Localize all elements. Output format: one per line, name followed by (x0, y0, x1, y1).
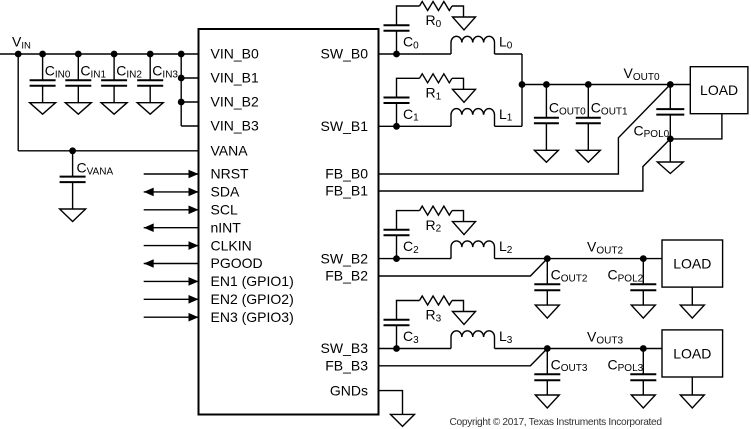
wire L2 to load rail (495, 258, 663, 260)
label CIN2 (116, 63, 142, 81)
svg-text:C1: C1 (403, 106, 419, 124)
svg-text:VIN: VIN (12, 34, 31, 52)
node CVANA tap (69, 147, 76, 154)
wire CIN0 lower stem (42, 86, 44, 103)
svg-text:VIN_B3: VIN_B3 (211, 118, 259, 134)
ground CVANA (60, 209, 86, 222)
capacitor CIN2 (101, 80, 127, 86)
svg-text:Copyright © 2017, Texas Instru: Copyright © 2017, Texas Instruments Inco… (450, 417, 663, 428)
wire EN3 (GPIO3) signal line (144, 316, 199, 318)
pin label SW_B0 (321, 46, 369, 62)
node CIN3 tap (147, 51, 154, 58)
node C1 junction (393, 123, 400, 130)
pin label VIN_B2 (211, 94, 259, 110)
label C2 (403, 238, 419, 256)
svg-text:FB_B3: FB_B3 (325, 358, 368, 374)
arrowhead SDA into IC (189, 188, 199, 197)
capacitor C2 (384, 230, 410, 236)
ground CIN0 (30, 103, 56, 115)
ground R1 (453, 89, 476, 102)
wire output bus B0/B1 (521, 54, 523, 126)
wire C1 to R1 (397, 78, 420, 97)
label L2 (499, 238, 513, 256)
ground CIN3 (137, 103, 163, 115)
node VIN bus tap (178, 51, 185, 58)
node VIN_B1 tap (178, 75, 185, 82)
svg-text:SW_B2: SW_B2 (321, 250, 369, 266)
wire C2 to R2 (397, 211, 420, 230)
svg-text:C2: C2 (403, 238, 419, 256)
label C3 (403, 328, 419, 346)
label C1 (403, 106, 419, 124)
label VIN (12, 34, 31, 52)
node CPOL3 tap (640, 345, 647, 352)
svg-text:NRST: NRST (211, 166, 250, 182)
wire SDA signal line (144, 191, 199, 193)
ground COUT1 (576, 150, 600, 162)
svg-text:R0: R0 (426, 12, 442, 30)
wire L1 to bus (495, 125, 523, 127)
label L1 (499, 106, 513, 124)
capacitor C1 (384, 98, 410, 104)
svg-text:FB_B1: FB_B1 (325, 183, 368, 199)
svg-text:SW_B0: SW_B0 (321, 46, 369, 62)
label CIN3 (152, 63, 178, 81)
wire LOAD0 return (670, 114, 722, 139)
arrowhead EN1 (GPIO1) into IC (189, 277, 199, 286)
label L3 (499, 328, 513, 346)
capacitor COUT0 (534, 118, 559, 124)
wire CIN2 lower stem (113, 86, 115, 103)
ground load return (657, 162, 683, 174)
wire COUT0 upper stem (545, 85, 547, 118)
label CVANA (77, 160, 114, 178)
label R0 (426, 12, 442, 30)
svg-text:CPOL0: CPOL0 (634, 122, 670, 140)
label CIN0 (45, 63, 71, 81)
label R1 (426, 85, 442, 103)
capacitor CIN0 (30, 80, 56, 86)
node VIN (15, 51, 22, 58)
wire C3 to R3 (397, 301, 420, 320)
svg-text:R3: R3 (426, 307, 442, 325)
inductor L0 (451, 36, 495, 54)
ground CPOL3 (631, 395, 655, 408)
pin label SCL (211, 202, 238, 218)
label VOUT2 (587, 239, 623, 257)
label VOUT0 (624, 65, 660, 83)
pin label NRST (211, 166, 250, 182)
wire CPOL3 lower stem (642, 380, 644, 395)
svg-text:L1: L1 (499, 106, 513, 124)
arrowhead EN3 (GPIO3) into IC (189, 313, 199, 322)
wire VANA feed vertical (17, 54, 19, 151)
capacitor C0 (384, 25, 410, 31)
svg-text:L3: L3 (499, 328, 513, 346)
wire FB_B2 net (379, 259, 548, 276)
wire R0 to ground (452, 6, 464, 17)
capacitor CVANA (60, 177, 86, 183)
op LOAD block VOUT3 (662, 330, 723, 377)
wire VIN vertical bus (180, 54, 182, 126)
label CPOL3 (608, 356, 644, 374)
node COUT3 tap (544, 345, 551, 352)
svg-text:CLKIN: CLKIN (211, 237, 252, 253)
op LOAD block VOUT0 (690, 67, 748, 114)
wire L3 to load rail (495, 348, 663, 350)
ground R3 (453, 312, 476, 325)
ground COUT0 (534, 150, 558, 162)
arrowhead nINT out of IC (144, 223, 154, 232)
node COUT0 tap (543, 81, 550, 88)
svg-text:CPOL3: CPOL3 (608, 356, 644, 374)
op LOAD block VOUT2 (662, 240, 723, 287)
label COUT3 (551, 356, 588, 374)
label copyright (450, 417, 663, 428)
wire LOAD3 ground stem (691, 377, 693, 395)
wire SW_B3 output (379, 348, 452, 350)
pin label EN2 (GPIO2) (211, 291, 294, 307)
wire C0 lower stem (396, 31, 398, 54)
ground CIN2 (101, 103, 127, 115)
inductor L2 (451, 241, 495, 259)
wire COUT0 lower stem (545, 123, 547, 150)
svg-text:CVANA: CVANA (77, 160, 114, 178)
pin label SW_B1 (321, 118, 369, 134)
pin label VIN_B3 (211, 118, 259, 134)
wire C0 to R0 (397, 6, 420, 25)
pin label SW_B2 (321, 250, 369, 266)
op IC U1 quad-buck PMIC body (199, 29, 379, 415)
wire COUT2 lower stem (546, 290, 548, 305)
arrowhead SCL into IC (189, 206, 199, 215)
ground GNDs (391, 414, 415, 426)
svg-text:PGOOD: PGOOD (211, 255, 263, 271)
svg-text:CIN0: CIN0 (45, 63, 71, 81)
svg-text:VOUT3: VOUT3 (587, 329, 623, 347)
pin label PGOOD (211, 255, 263, 271)
node load return (667, 136, 674, 143)
wire CIN3 upper stem (149, 54, 151, 80)
svg-text:SW_B1: SW_B1 (321, 118, 369, 134)
ground COUT3 (535, 395, 559, 408)
ground LOAD3 (680, 395, 704, 408)
svg-text:VIN_B2: VIN_B2 (211, 94, 259, 110)
wire FB_B3 net (379, 349, 548, 366)
inductor L3 (451, 331, 495, 349)
pin label nINT (211, 219, 242, 235)
capacitor CIN3 (137, 80, 163, 86)
node CPOL2 tap (640, 255, 647, 262)
arrowhead CLKIN into IC (189, 241, 199, 250)
label COUT0 (549, 100, 586, 118)
label L0 (499, 34, 513, 52)
svg-text:VOUT0: VOUT0 (624, 65, 660, 83)
wire CVANA lower stem (72, 182, 74, 209)
wire R1 to ground (452, 78, 464, 89)
node C3 junction (393, 345, 400, 352)
wire EN1 (GPIO1) signal line (144, 280, 199, 282)
svg-text:CIN1: CIN1 (80, 63, 106, 81)
resistor R1 (420, 74, 453, 83)
svg-text:L2: L2 (499, 238, 513, 256)
wire VIN_B2 stub (181, 101, 198, 103)
wire NRST signal line (144, 173, 199, 175)
svg-text:LOAD: LOAD (700, 82, 738, 98)
wire CPOL3 upper stem (642, 349, 644, 375)
node C0 junction (393, 51, 400, 58)
arrowhead EN2 (GPIO2) into IC (189, 295, 199, 304)
svg-text:COUT3: COUT3 (551, 356, 588, 374)
wire C3 lower stem (396, 325, 398, 348)
svg-text:CIN3: CIN3 (152, 63, 178, 81)
resistor R3 (420, 296, 453, 305)
svg-text:SDA: SDA (211, 184, 240, 200)
node CIN2 tap (111, 51, 118, 58)
arrowhead SDA out of IC (144, 188, 154, 197)
wire VIN input rail (0, 53, 199, 55)
node CIN0 tap (39, 51, 46, 58)
arrowhead NRST into IC (189, 170, 199, 179)
svg-text:FB_B0: FB_B0 (325, 166, 368, 182)
svg-text:EN2 (GPIO2): EN2 (GPIO2) (211, 291, 294, 307)
wire CPOL0 upper stem (669, 85, 671, 110)
pin label VIN_B1 (211, 70, 259, 86)
pin label VANA (211, 143, 249, 159)
pin label FB_B2 (325, 268, 368, 284)
wire PGOOD signal line (144, 263, 199, 265)
pin label FB_B3 (325, 358, 368, 374)
wire CIN3 lower stem (149, 86, 151, 103)
svg-text:EN3 (GPIO3): EN3 (GPIO3) (211, 309, 294, 325)
svg-text:CIN2: CIN2 (116, 63, 142, 81)
wire VOUT0 rail (522, 84, 690, 86)
wire COUT1 upper stem (587, 85, 589, 118)
pin label EN1 (GPIO1) (211, 273, 294, 289)
node COUT1 tap (585, 81, 592, 88)
label COUT1 (591, 100, 628, 118)
node VOUT0 sense (667, 81, 674, 88)
arrowhead PGOOD out of IC (144, 259, 154, 268)
svg-text:SCL: SCL (211, 202, 238, 218)
wire CIN1 lower stem (77, 86, 79, 103)
wire VIN_B3 stub (181, 125, 198, 127)
wire FB_B0 net (379, 85, 671, 175)
pin label EN3 (GPIO3) (211, 309, 294, 325)
wire L0 to bus (495, 53, 523, 55)
ground LOAD2 (680, 305, 704, 318)
node CIN1 tap (75, 51, 82, 58)
wire CPOL0 lower stem (669, 115, 671, 139)
label R2 (426, 217, 442, 235)
pin label FB_B1 (325, 183, 368, 199)
svg-text:COUT2: COUT2 (551, 266, 588, 284)
resistor R2 (420, 206, 453, 215)
wire return ground stem (669, 139, 671, 162)
wire CIN2 upper stem (113, 54, 115, 80)
svg-text:SW_B3: SW_B3 (321, 340, 369, 356)
wire GNDs pin (379, 391, 403, 415)
ground R2 (453, 222, 476, 235)
wire R3 to ground (452, 301, 464, 312)
svg-text:GNDs: GNDs (330, 382, 368, 398)
capacitor C3 (384, 320, 410, 326)
label R3 (426, 307, 442, 325)
capacitor CPOL3 (630, 374, 656, 380)
capacitor CPOL0 (656, 109, 684, 115)
svg-text:COUT1: COUT1 (591, 100, 628, 118)
node VIN_B2 tap (178, 99, 185, 106)
capacitor COUT3 (534, 374, 560, 380)
wire COUT2 upper stem (546, 259, 548, 285)
node VOUT0 bus tap (519, 81, 526, 88)
inductor L1 (451, 109, 495, 127)
wire nINT signal line (144, 227, 199, 229)
wire COUT3 lower stem (546, 380, 548, 395)
ground CPOL2 (631, 305, 655, 318)
ground COUT2 (535, 305, 559, 318)
label COUT2 (551, 266, 588, 284)
wire LOAD2 ground stem (691, 287, 693, 305)
node COUT2 tap (544, 255, 551, 262)
svg-text:CPOL2: CPOL2 (608, 266, 644, 284)
wire CPOL2 upper stem (642, 259, 644, 285)
wire R2 to ground (452, 211, 464, 222)
capacitor COUT2 (534, 284, 560, 290)
capacitor COUT1 (576, 118, 601, 124)
svg-text:VIN_B1: VIN_B1 (211, 70, 259, 86)
wire SCL signal line (144, 209, 199, 211)
label CPOL0 (634, 122, 670, 140)
svg-text:C0: C0 (403, 34, 419, 52)
svg-text:R2: R2 (426, 217, 442, 235)
svg-text:EN1 (GPIO1): EN1 (GPIO1) (211, 273, 294, 289)
wire CIN1 upper stem (77, 54, 79, 80)
ground CIN1 (65, 103, 91, 115)
resistor R0 (420, 2, 453, 11)
svg-text:VOUT2: VOUT2 (587, 239, 623, 257)
wire COUT1 lower stem (587, 123, 589, 150)
wire CVANA upper stem (72, 151, 74, 177)
svg-text:LOAD: LOAD (673, 345, 711, 361)
ground R0 (453, 17, 476, 30)
wire SW_B0 output (379, 53, 452, 55)
svg-text:nINT: nINT (211, 219, 242, 235)
svg-text:L0: L0 (499, 34, 513, 52)
capacitor CIN1 (65, 80, 91, 86)
wire CIN0 upper stem (42, 54, 44, 80)
pin label SDA (211, 184, 240, 200)
svg-text:COUT0: COUT0 (549, 100, 586, 118)
pin label SW_B3 (321, 340, 369, 356)
pin label CLKIN (211, 237, 252, 253)
svg-text:R1: R1 (426, 85, 442, 103)
wire EN2 (GPIO2) signal line (144, 298, 199, 300)
wire C2 lower stem (396, 235, 398, 258)
svg-text:VANA: VANA (211, 143, 249, 159)
wire CLKIN signal line (144, 245, 199, 247)
wire CPOL2 lower stem (642, 290, 644, 305)
svg-text:LOAD: LOAD (673, 256, 711, 272)
label VOUT3 (587, 329, 623, 347)
pin label GNDs (330, 382, 368, 398)
label CPOL2 (608, 266, 644, 284)
svg-text:C3: C3 (403, 328, 419, 346)
wire VIN_B1 stub (181, 77, 198, 79)
wire SW_B1 output (379, 125, 452, 127)
svg-text:VIN_B0: VIN_B0 (211, 46, 259, 62)
wire COUT3 upper stem (546, 349, 548, 375)
wire C1 lower stem (396, 103, 398, 126)
svg-text:FB_B2: FB_B2 (325, 268, 368, 284)
wire SW_B2 output (379, 258, 452, 260)
label C0 (403, 34, 419, 52)
wire FB_B1 net (379, 139, 671, 191)
capacitor CPOL2 (630, 284, 656, 290)
node C2 junction (393, 255, 400, 262)
pin label FB_B0 (325, 166, 368, 182)
wire VANA feed horizontal (18, 150, 198, 152)
pin label VIN_B0 (211, 46, 259, 62)
label CIN1 (80, 63, 106, 81)
